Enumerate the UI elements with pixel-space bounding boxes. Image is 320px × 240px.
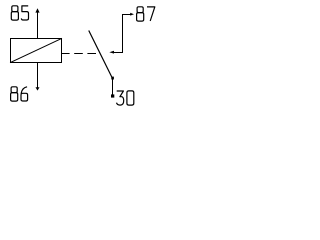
- label 86: [11, 87, 28, 101]
- switch blade SW1: [89, 31, 113, 79]
- junction node blade/30: [111, 77, 114, 80]
- terminal square pin 30: [111, 94, 114, 97]
- relay coil K1 box: [11, 39, 62, 63]
- dashed actuation link: [62, 53, 97, 55]
- label 87: [137, 7, 155, 21]
- arrowhead pin 85 (up): [35, 8, 39, 12]
- wire pin 85 lead: [37, 12, 39, 39]
- arrowhead pin 87 contact (left): [109, 51, 114, 54]
- arrowhead pin 86 (down): [36, 87, 40, 90]
- coil diagonal stroke: [11, 39, 62, 63]
- wire pin 30 lead: [112, 79, 114, 96]
- wire pin 87 lead: [114, 15, 131, 53]
- arrowhead pin 87 label end (right): [130, 13, 134, 16]
- label 85: [11, 6, 28, 20]
- wire pin 86 lead: [37, 63, 39, 88]
- label 30: [117, 91, 134, 105]
